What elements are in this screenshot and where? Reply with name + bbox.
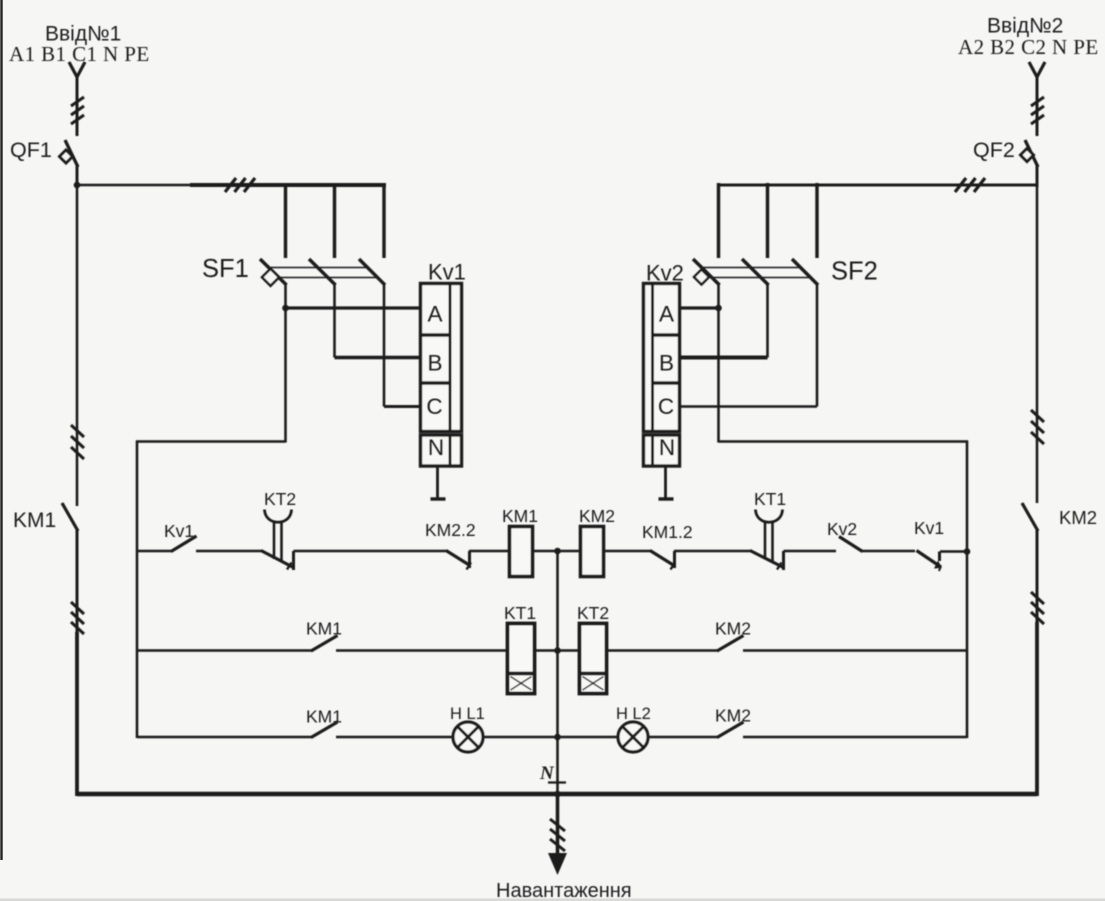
wire pole3 down bbox=[816, 283, 819, 407]
node phase A2 junction bbox=[715, 305, 722, 312]
svg-text:KM1: KM1 bbox=[306, 619, 342, 639]
svg-text:KT1: KT1 bbox=[504, 603, 536, 623]
switch SF1 blade3 bbox=[359, 259, 385, 285]
svg-text:A1 B1 C1 N PE: A1 B1 C1 N PE bbox=[9, 42, 150, 66]
svg-text:N: N bbox=[539, 763, 555, 784]
wire pole1 down to control right bbox=[717, 283, 720, 443]
svg-text:B: B bbox=[427, 351, 442, 376]
svg-text:Kv1: Kv1 bbox=[914, 518, 944, 538]
wire feeder1 bbox=[76, 75, 79, 136]
slash group bus1 bbox=[225, 178, 255, 192]
wire row1 seg5 bbox=[533, 550, 581, 553]
wire A1 to Kv1 bbox=[286, 306, 422, 309]
terminal Kv2 N bar bbox=[659, 497, 674, 500]
wire bus1 thick part bbox=[190, 183, 386, 187]
svg-text:KT2: KT2 bbox=[577, 603, 609, 623]
svg-text:KM1: KM1 bbox=[502, 506, 538, 526]
wire SF2 pole1 drop bbox=[717, 183, 720, 258]
switch SF1 handle diamond bbox=[262, 269, 279, 286]
svg-text:Kv1: Kv1 bbox=[428, 260, 466, 285]
svg-text:Kv2: Kv2 bbox=[827, 519, 857, 539]
wire row1 seg7 bbox=[674, 550, 751, 553]
svg-text:KM2: KM2 bbox=[1059, 507, 1097, 528]
wire row1 seg4 bbox=[469, 550, 510, 553]
wire right main down bbox=[1036, 185, 1039, 503]
switch SF1 linkage bbox=[268, 268, 376, 278]
wire row2 seg3 bbox=[535, 649, 581, 652]
wire Kv2 N down bbox=[664, 466, 667, 498]
contact Kv2 NO mirrored bbox=[839, 537, 863, 552]
wire feeder2 bbox=[1036, 75, 1039, 136]
slash group left main upper bbox=[71, 425, 84, 459]
node row1 right rail bbox=[964, 548, 971, 555]
svg-text:A2 B2 C2 N PE: A2 B2 C2 N PE bbox=[958, 35, 1099, 59]
wire SF1 pole2 drop bbox=[333, 183, 336, 258]
node row3 center bbox=[554, 734, 561, 741]
svg-text:B: B bbox=[659, 351, 674, 376]
wire row1 seg1 bbox=[137, 550, 172, 553]
wire row3 seg5 bbox=[743, 736, 967, 739]
svg-text:A: A bbox=[427, 302, 442, 327]
wire row1 seg8 bbox=[784, 550, 837, 553]
node phase A1 junction bbox=[282, 305, 289, 312]
slash group right main lower bbox=[1031, 592, 1044, 624]
breaker QF1 bbox=[65, 140, 78, 167]
contactor contact KM1 main bbox=[62, 503, 78, 531]
slash group bus2 bbox=[955, 178, 985, 192]
wire C1 to Kv1 bbox=[384, 405, 421, 408]
svg-text:SF1: SF1 bbox=[202, 255, 249, 283]
svg-text:A: A bbox=[659, 302, 674, 327]
svg-text:N: N bbox=[659, 435, 675, 460]
coil KM1 bbox=[510, 527, 533, 577]
wire row1 seg6 bbox=[604, 550, 652, 553]
wire bottom bus bbox=[77, 792, 1037, 796]
wire row2 seg1 bbox=[137, 649, 312, 652]
lamp HL2 bbox=[618, 722, 648, 752]
wire to bottom bus bbox=[1035, 622, 1039, 796]
svg-text:Навантаження: Навантаження bbox=[496, 880, 632, 901]
wire row2 seg4 bbox=[607, 649, 719, 652]
svg-text:KT2: KT2 bbox=[264, 489, 296, 509]
wire neutral vertical bbox=[556, 551, 559, 795]
wire bbox=[76, 530, 79, 634]
svg-text:KM1: KM1 bbox=[13, 509, 56, 532]
contact Kv1 NC bbox=[917, 551, 942, 568]
switch SF2 blade3 bbox=[792, 259, 818, 285]
relay Kv1 box bbox=[421, 284, 462, 432]
node QF1-bus junction bbox=[74, 182, 81, 189]
svg-text:KM2.2: KM2.2 bbox=[425, 520, 476, 540]
wire bus1 thin part bbox=[77, 184, 192, 187]
svg-text:C: C bbox=[658, 394, 674, 419]
wire row2 seg5 bbox=[743, 649, 967, 652]
svg-text:QF1: QF1 bbox=[10, 138, 52, 162]
wire B1 to Kv1 bbox=[335, 356, 422, 360]
wire pole2 down bbox=[333, 283, 336, 358]
wire SF2 pole2 drop bbox=[766, 183, 769, 258]
contactor contact KM2 main bbox=[1022, 503, 1038, 531]
wire row1 seg10 bbox=[940, 550, 967, 553]
svg-text:Kv1: Kv1 bbox=[164, 521, 194, 541]
svg-text:SF2: SF2 bbox=[831, 258, 878, 286]
slash group right main upper bbox=[1031, 410, 1044, 444]
slash group load bbox=[550, 819, 565, 851]
wire row2 seg2 bbox=[336, 649, 508, 652]
wire C2 to Kv2 bbox=[679, 405, 817, 408]
svg-text:KT1: KT1 bbox=[754, 489, 786, 509]
svg-text:C: C bbox=[426, 394, 442, 419]
switch SF2 handle diamond bbox=[694, 270, 709, 285]
svg-text:Kv2: Kv2 bbox=[646, 261, 684, 286]
arrow load bbox=[548, 853, 567, 875]
wire row1 seg2 bbox=[196, 550, 262, 553]
contact KM1 NO row3 bbox=[311, 722, 338, 738]
switch SF1 blade1 bbox=[260, 259, 287, 285]
timer coil KT1 bbox=[508, 624, 535, 694]
wire QF1 to bus bbox=[76, 164, 79, 187]
svg-text:H L2: H L2 bbox=[616, 705, 651, 723]
svg-text:KM2: KM2 bbox=[579, 506, 615, 526]
page left edge line bbox=[0, 0, 2, 860]
wire left main down bbox=[76, 185, 79, 506]
contact KM2 NO row2 bbox=[717, 636, 744, 652]
svg-text:KM2: KM2 bbox=[715, 619, 751, 639]
wire bus2 thick part bbox=[717, 183, 1037, 186]
wire load drop bbox=[556, 794, 560, 856]
breaker QF2 bbox=[1025, 140, 1038, 167]
node neutral-bus bbox=[554, 791, 561, 798]
wire control feed right bbox=[719, 442, 968, 739]
wire row3 seg3 bbox=[483, 736, 619, 739]
svg-text:KM2: KM2 bbox=[715, 706, 751, 726]
input arrow V left bbox=[69, 62, 85, 77]
coil KM2 bbox=[581, 527, 604, 577]
contact KT2 NC delayed bbox=[261, 551, 293, 568]
wire pole3 down bbox=[383, 283, 386, 407]
switch SF2 linkage bbox=[701, 268, 809, 278]
relay Kv2 box bbox=[644, 284, 680, 432]
wire row3 seg1 bbox=[137, 736, 312, 739]
wire row1 seg3 bbox=[294, 550, 448, 553]
contact KT1 NC delayed bbox=[750, 551, 783, 568]
input arrow V right bbox=[1029, 62, 1045, 77]
wire SF2 pole3 drop bbox=[815, 183, 818, 258]
contact KM2 NO row3 bbox=[717, 722, 744, 738]
timer coil KT2 bbox=[580, 624, 607, 694]
switch SF2 blade2 bbox=[742, 259, 769, 285]
page edge shadow bottom bbox=[0, 899, 1105, 901]
wire to bottom bus bbox=[75, 632, 79, 796]
switch SF1 blade2 bbox=[309, 259, 336, 285]
contact Kv1 NO bbox=[171, 536, 197, 552]
lamp HL1 bbox=[453, 722, 483, 752]
svg-text:N: N bbox=[428, 435, 444, 460]
svg-text:KM1.2: KM1.2 bbox=[642, 522, 693, 542]
wire row3 seg2 bbox=[336, 736, 453, 739]
wire SF1 pole3 drop bbox=[382, 183, 385, 258]
wire SF1 pole1 drop bbox=[284, 183, 287, 258]
svg-text:QF2: QF2 bbox=[973, 138, 1015, 162]
node row1 center bbox=[554, 548, 561, 555]
wire B2 to Kv2 bbox=[679, 356, 768, 360]
svg-text:H L1: H L1 bbox=[450, 705, 485, 723]
contact KM2.2 NC bbox=[446, 551, 470, 566]
wire pole2 down bbox=[766, 283, 769, 358]
wire bbox=[1036, 530, 1039, 624]
wire control feed left bbox=[137, 442, 286, 739]
svg-text:KM1: KM1 bbox=[306, 707, 342, 727]
terminal Kv1 N bar bbox=[431, 497, 446, 500]
slash group feeder1 bbox=[71, 97, 84, 124]
wire A2 to Kv2 bbox=[679, 306, 719, 309]
node row2 center bbox=[554, 647, 561, 654]
wire pole1 down to control bbox=[284, 283, 287, 443]
wire row1 seg9 bbox=[862, 550, 915, 553]
contact KM1.2 NC bbox=[650, 551, 674, 566]
slash group left main lower bbox=[71, 602, 84, 634]
wire QF2 to bus bbox=[1036, 164, 1039, 187]
contact KM1 NO row2 bbox=[311, 636, 338, 652]
switch SF2 blade1 bbox=[693, 259, 720, 285]
wire row3 seg4 bbox=[648, 736, 719, 739]
slash group feeder2 bbox=[1031, 97, 1044, 124]
wire Kv1 N down bbox=[436, 466, 439, 498]
